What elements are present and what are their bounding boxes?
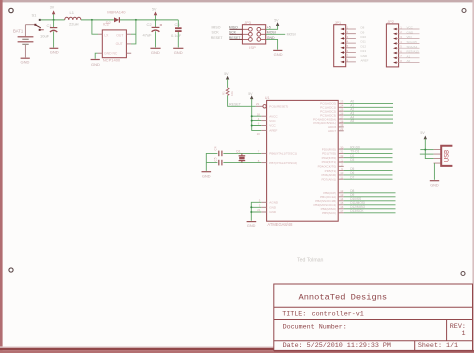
IC U1 ATMEGA box [267, 100, 339, 221]
battery BAT1 [18, 25, 34, 58]
svg-text:L1: L1 [70, 10, 75, 15]
connector JP1 box [334, 25, 346, 67]
svg-text:VCC: VCC [269, 119, 276, 123]
pin GND of IC2 [98, 52, 103, 54]
svg-text:5V: 5V [224, 72, 229, 76]
net label RESET [229, 102, 242, 106]
svg-text:A1: A1 [407, 54, 411, 58]
wire JP3 MOSI out [266, 33, 286, 35]
wire RESET to JP3 [229, 38, 242, 40]
capacitor C3 label [175, 22, 181, 27]
net label MOSI (dark) [267, 31, 276, 35]
svg-text:D3: D3 [350, 158, 354, 162]
svg-text:TITLE:: TITLE: [282, 310, 306, 318]
svg-text:R1: R1 [222, 91, 226, 95]
JP2 net labels [407, 26, 420, 64]
ground under battery [21, 58, 30, 64]
svg-text:GND: GND [269, 206, 277, 210]
frame top bar [0, 0, 474, 2]
title block outline [274, 284, 473, 350]
svg-text:AnnotaTed Designs: AnnotaTed Designs [299, 293, 388, 303]
svg-text:OUT: OUT [116, 33, 123, 37]
capacitor C2 label [147, 22, 153, 27]
title block TITLE row [282, 310, 364, 318]
svg-text:RESET: RESET [229, 36, 242, 40]
diode D2 label [106, 20, 112, 25]
svg-text:29: 29 [256, 102, 260, 106]
title block REV [450, 323, 466, 338]
wire JP3 pin2 to 5V [266, 26, 278, 30]
junction GND pin3 [250, 206, 252, 208]
connector JP1 label [335, 21, 342, 25]
wire SCK to JP3 [229, 33, 242, 35]
wires ADC nets [344, 103, 393, 123]
svg-text:VIN: VIN [407, 35, 412, 39]
svg-text:RESET: RESET [211, 36, 224, 40]
pin NC of IC2 [126, 52, 131, 54]
capacitor C4 [219, 151, 222, 157]
wire USB D- stub [420, 149, 433, 151]
net label MISO (dark) [229, 26, 238, 30]
svg-text:Ted Tolman: Ted Tolman [297, 257, 324, 263]
svg-text:MOSI: MOSI [287, 33, 296, 37]
svg-text:PB6(XTAL1/TOSC1): PB6(XTAL1/TOSC1) [269, 152, 297, 156]
resistor R1 label [222, 91, 226, 95]
svg-text:17: 17 [340, 209, 344, 213]
IC U1 value ATMEGA8/48 [267, 222, 293, 227]
net labels D0-D7 [350, 145, 360, 179]
svg-text:GND: GND [247, 224, 256, 228]
connector JP3 value ISP [249, 45, 256, 50]
svg-text:C5: C5 [214, 157, 218, 161]
net 5V arrow above AVCC [248, 92, 253, 99]
wire battery to switch [25, 24, 34, 26]
fiducial hole top-left [9, 8, 13, 12]
wire caps to ground rail [206, 153, 217, 171]
junction rail at C2 [155, 19, 157, 21]
svg-text:OUT: OUT [116, 42, 123, 46]
svg-text:ATMEGA8/48: ATMEGA8/48 [267, 222, 293, 227]
wires PD nets [344, 149, 393, 179]
net 5V arrow above R1 [224, 72, 229, 88]
svg-text:VCC: VCC [269, 124, 276, 128]
junction rail at OUT drop [135, 19, 137, 21]
junction at LX drop [91, 19, 93, 21]
pin AGND [259, 198, 267, 202]
svg-text:GND: GND [202, 175, 211, 179]
svg-text:GND: GND [274, 52, 283, 57]
switch S1 label [32, 13, 38, 18]
svg-text:A5: A5 [350, 119, 354, 123]
svg-text:IC2: IC2 [103, 22, 110, 27]
junction VCC pin4 [251, 120, 253, 122]
wire USB D+ stub [420, 153, 434, 155]
net label RESET (gray) [211, 36, 224, 40]
svg-text:47uF: 47uF [143, 33, 153, 38]
ground under C3 [173, 48, 183, 55]
connector JP3 box [242, 25, 265, 44]
title block sheet [418, 342, 458, 350]
connector JP2 box [386, 24, 398, 67]
svg-text:NCP1400: NCP1400 [103, 58, 121, 63]
connector USB label [444, 150, 450, 162]
capacitor C5 label [214, 157, 218, 161]
pin VCC 4 [258, 117, 267, 121]
net label GND (dark) [267, 36, 275, 40]
pin numbers PB group [340, 189, 344, 213]
inductor L1 [65, 17, 81, 20]
svg-text:Q1: Q1 [236, 149, 241, 153]
capacitor C1 label [47, 23, 53, 28]
junction AVCC [251, 115, 253, 117]
title block document number row [283, 324, 347, 332]
svg-text:10uF: 10uF [40, 34, 50, 39]
ground under MCU [247, 222, 257, 228]
svg-text:S1: S1 [32, 13, 38, 18]
svg-text:GND: GND [21, 59, 30, 64]
pin AVCC [257, 112, 267, 116]
capacitor C1 [50, 20, 57, 48]
svg-text:D13/SCK: D13/SCK [350, 209, 364, 213]
svg-text:Document Number:: Document Number: [283, 324, 347, 332]
net label MISO (gray) [212, 26, 221, 30]
svg-text:C4: C4 [214, 146, 218, 150]
U1 left pin names [269, 105, 297, 215]
inductor L1 label [70, 10, 75, 15]
svg-text:5V: 5V [152, 8, 157, 12]
svg-text:10k: 10k [230, 91, 234, 96]
pin VCC 6 [258, 122, 267, 126]
wire OUT/FB to rail [131, 20, 136, 44]
author note text [297, 257, 324, 263]
pin PB7 [258, 159, 267, 163]
title block company name [299, 293, 388, 303]
svg-text:ADC7: ADC7 [328, 129, 336, 133]
inductor L1 value 22uH [69, 21, 79, 26]
wires PB nets [344, 193, 396, 213]
svg-text:D12: D12 [361, 44, 367, 48]
connector JP3 label [244, 21, 251, 25]
wire AGND/GND pins to ground [251, 202, 261, 221]
net 3V supply arrow [50, 6, 56, 20]
JP2 pins [393, 25, 420, 63]
frame right bar [472, 0, 474, 353]
svg-text:GND: GND [269, 210, 277, 214]
svg-text:PC6(/RESET): PC6(/RESET) [269, 105, 288, 109]
svg-text:18: 18 [257, 112, 261, 116]
crystal Q1 label [236, 149, 241, 153]
svg-text:GND: GND [407, 30, 415, 34]
svg-text:PD7(AIN1): PD7(AIN1) [321, 177, 336, 181]
svg-text:RESET: RESET [229, 102, 242, 106]
pin ADC6 stub [338, 126, 344, 128]
junction GND pin21 [250, 211, 252, 213]
capacitor C1 value 10uF [40, 34, 50, 39]
fiducial hole left-middle [9, 268, 13, 272]
net labels A0-A5 [350, 100, 354, 124]
capacitor C3 [175, 20, 182, 48]
svg-text:MISO: MISO [229, 26, 238, 30]
junction 3V at C1 [53, 19, 55, 21]
svg-text:D7: D7 [350, 175, 354, 179]
svg-text:RST/A13: RST/A13 [407, 50, 420, 54]
wire USB GND down [433, 163, 435, 180]
svg-text:AVCC: AVCC [269, 114, 278, 118]
wire inductor to diode [81, 19, 114, 21]
connector USB pins [434, 150, 441, 164]
wire R1 to RESET pin [228, 95, 256, 106]
capacitor C2 [152, 20, 162, 48]
wire rail to LX pin [92, 20, 98, 34]
ground under USB [430, 181, 439, 188]
fiducial hole top-right [462, 9, 466, 13]
svg-text:SDA/A4: SDA/A4 [407, 45, 418, 49]
resistor R1 [226, 88, 229, 96]
svg-text:3V: 3V [50, 6, 55, 10]
svg-text:VCC: VCC [407, 26, 414, 30]
wire MISO to JP3 [229, 28, 242, 30]
net 5V supply arrow over C2 [152, 8, 157, 20]
title block date row [283, 342, 391, 350]
svg-text:U1: U1 [265, 96, 270, 100]
svg-text:controller-v1: controller-v1 [312, 310, 364, 318]
diode D2 value MBRA140 [107, 9, 126, 14]
svg-text:C2: C2 [147, 22, 153, 27]
pin LX [98, 33, 102, 35]
svg-text:AREF: AREF [361, 59, 369, 63]
svg-text:A0: A0 [407, 59, 411, 63]
svg-text:5V: 5V [248, 92, 253, 96]
capacitor C3 value 0.1uF [171, 33, 182, 38]
svg-text:0.1uF: 0.1uF [171, 33, 182, 38]
title block row lines [274, 307, 473, 350]
svg-text:MISO: MISO [212, 26, 221, 30]
svg-text:MBRA140: MBRA140 [107, 9, 126, 14]
svg-text:SCK: SCK [212, 31, 220, 35]
resistor R1 value 10k [230, 91, 234, 96]
wire 3V rail (switch to inductor) [41, 19, 65, 21]
frame left bar [0, 0, 3, 353]
net labels D8-D13 [350, 189, 365, 213]
net label MOSI (gray right) [287, 33, 296, 37]
JP1 pins [340, 25, 356, 63]
wire XTAL2 [223, 162, 261, 164]
svg-text:GND: GND [361, 54, 369, 58]
svg-text:20: 20 [257, 132, 261, 136]
JP1 net labels [361, 26, 369, 63]
pins PC0-PC5 stubs [338, 103, 344, 123]
svg-text:22: 22 [340, 127, 344, 131]
IC U1 label [265, 96, 270, 100]
svg-text:SCL/A5: SCL/A5 [407, 40, 418, 44]
svg-text:22uH: 22uH [69, 21, 79, 26]
svg-text:BAT1: BAT1 [13, 29, 24, 34]
svg-text:SCK: SCK [229, 31, 237, 35]
svg-text:GND: GND [151, 50, 160, 55]
junction VCC pin6 [251, 125, 253, 127]
pins PB group stubs [338, 193, 344, 213]
JP3 pads [242, 27, 265, 41]
svg-text:D9: D9 [361, 30, 365, 34]
ground under C1 [50, 48, 59, 54]
svg-text:AREF: AREF [269, 129, 277, 133]
net label RESET (dark) [229, 36, 242, 40]
svg-text:GND: GND [430, 184, 439, 188]
svg-text:AGND: AGND [269, 201, 279, 205]
net label +5 [267, 26, 271, 30]
wire 5V to power pins [252, 99, 262, 131]
svg-text:USB: USB [444, 150, 450, 162]
pins PD group stubs [338, 149, 344, 179]
svg-text:PB5(SCK): PB5(SCK) [322, 211, 336, 215]
pin PC6/RESET bubble [256, 102, 266, 108]
frame bottom bar [0, 346, 474, 353]
svg-text:PB7(XTAL2/TOSC2): PB7(XTAL2/TOSC2) [269, 161, 297, 165]
pin PB6 [258, 150, 267, 154]
diode D2 [114, 17, 119, 22]
regulator IC2 NCP1400 box [102, 30, 126, 58]
svg-text:D13: D13 [361, 49, 367, 53]
svg-text:1: 1 [462, 330, 466, 338]
pin FB of IC2 [126, 43, 131, 45]
fiducial hole right-middle [461, 272, 465, 276]
ground under JP3 [273, 50, 282, 57]
wire JP3 GND down [266, 39, 278, 49]
connector JP2 label [387, 20, 394, 24]
wire XTAL1 [223, 152, 261, 154]
svg-text:11: 11 [340, 176, 343, 180]
U1 right pin names [313, 102, 336, 215]
regulator IC2 label [103, 22, 110, 27]
svg-text:5V: 5V [274, 18, 279, 22]
junction USB 5V [424, 149, 426, 151]
svg-text:GND: GND [91, 62, 100, 67]
pin numbers PC group [340, 100, 344, 131]
svg-text:GND: GND [50, 50, 59, 55]
svg-text:LX: LX [104, 33, 109, 37]
svg-text:JP3: JP3 [244, 21, 251, 25]
switch S1 [34, 19, 43, 31]
regulator IC2 value NCP1400 [103, 58, 121, 63]
svg-text:21: 21 [257, 208, 261, 212]
capacitor C5 [219, 160, 222, 166]
net label SCK (gray) [212, 31, 220, 35]
svg-text:C3: C3 [175, 22, 181, 27]
pin GND 21 [257, 208, 267, 212]
capacitor C2 value 47uF [143, 33, 153, 38]
pin GND 3 [259, 203, 267, 207]
net 5V arrow above JP3 [274, 18, 279, 26]
net 5V arrow above USB [420, 131, 427, 139]
svg-text:D10: D10 [361, 35, 367, 39]
net label SCK (dark) [229, 31, 237, 35]
ground under C2 [150, 48, 160, 55]
svg-text:Date: 5/25/2010 11:29:33 PM: Date: 5/25/2010 11:29:33 PM [283, 342, 391, 350]
pin OUT of IC2 [126, 33, 131, 35]
wire 5V to USB VBUS [425, 139, 433, 159]
svg-text:ISP: ISP [249, 45, 256, 50]
battery BAT1 label [13, 29, 24, 34]
svg-text:GND NC: GND NC [104, 51, 118, 55]
ground under IC2 [91, 60, 100, 67]
wire diode to C3 (5V rail) [120, 19, 178, 21]
pin numbers PD group [340, 145, 344, 179]
svg-text:D8: D8 [361, 26, 365, 30]
pin AREF [257, 130, 267, 135]
connector USB body [441, 146, 452, 166]
svg-text:5V: 5V [420, 131, 425, 135]
pin ADC7 stub [338, 130, 344, 132]
capacitor C4 label [214, 146, 218, 150]
svg-text:GND: GND [174, 50, 183, 55]
crystal Q1 [239, 153, 246, 162]
ground under crystal caps [202, 172, 212, 179]
svg-text:Sheet: 1/1: Sheet: 1/1 [418, 342, 458, 350]
wire IC2 GND pin to ground [95, 53, 97, 59]
svg-text:D11: D11 [361, 40, 367, 44]
